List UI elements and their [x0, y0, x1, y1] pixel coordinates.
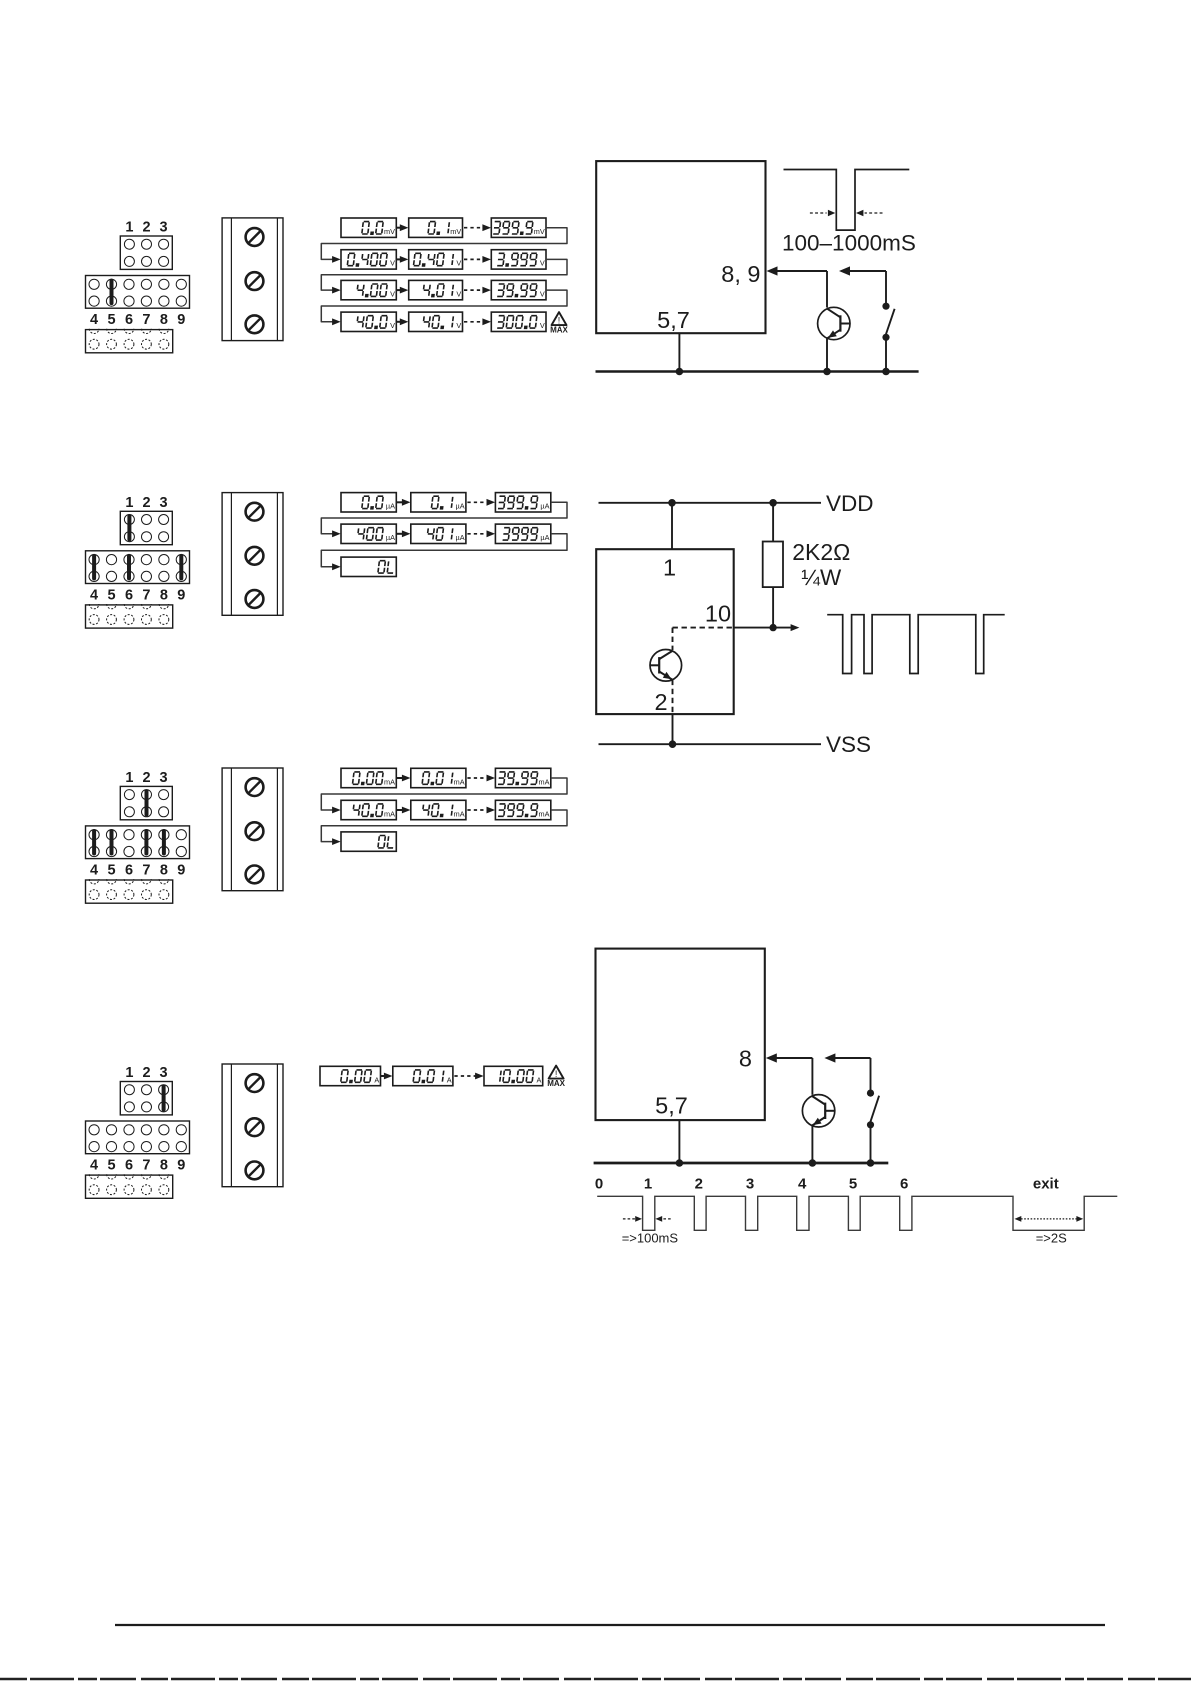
dashed measure arrow into first pulse left [623, 1216, 642, 1222]
jumper shunt on pin 9 (section 2) [179, 556, 183, 579]
pin labels 1 2 3 (section 2) [125, 495, 167, 511]
svg-text:5: 5 [107, 587, 115, 603]
svg-text:mA: mA [454, 777, 465, 786]
DUT box U2 (section 2) [596, 549, 734, 714]
svg-text:V: V [540, 259, 545, 268]
svg-text:mA: mA [454, 809, 465, 818]
wire: wrap connector to next range row (section 2) [321, 502, 567, 537]
wire: wrap connector to next range row (section 3) [321, 810, 567, 845]
svg-text:3: 3 [160, 770, 168, 786]
jumper shunt on pin 1 (section 2) [127, 516, 131, 539]
svg-text:MAX: MAX [547, 1079, 565, 1088]
svg-text:mA: mA [539, 809, 550, 818]
wire: switch top lead (section 4) [870, 1058, 872, 1093]
jumper header top block pins 1-3 (section 1) [120, 236, 172, 269]
wire: pin 2 to VSS [672, 714, 674, 744]
dashed measure arrow into first pulse right [655, 1216, 670, 1222]
ground rail (section 1) [596, 370, 919, 373]
svg-text:5: 5 [107, 862, 115, 878]
wire: wrap connector to next range row (section 2) [321, 534, 567, 570]
terminal block TB2 bottom screw [246, 590, 264, 608]
wire: resistor to output node [772, 587, 774, 628]
junction dot pin2/VSS [669, 740, 677, 748]
terminal block TB1 top screw [246, 228, 264, 246]
warning MAX symbol (section 1) [550, 312, 568, 334]
svg-text:V: V [390, 321, 395, 330]
svg-text:mV: mV [384, 227, 395, 236]
jumper header middle block pins 4-9 (section 4) [86, 1121, 190, 1154]
arrow step [397, 807, 411, 814]
wire: DUT pin 5,7 to ground (section 4) [678, 1120, 680, 1163]
junction dot pin 5,7 (section 4) [676, 1159, 684, 1167]
svg-text:2: 2 [142, 220, 150, 236]
ground rail (section 4) [594, 1162, 889, 1165]
wire: switch branch arrow (section 4) [824, 1053, 870, 1062]
output pulse waveform (section 2) [827, 615, 1005, 674]
svg-text:9: 9 [177, 1158, 185, 1174]
jumper header backside block (section 3) [86, 879, 173, 903]
svg-text:4: 4 [90, 1158, 98, 1174]
transistor Q2 (internal, mirrored) [650, 650, 682, 682]
svg-text:6: 6 [125, 862, 133, 878]
jumper shunt on pin 3 (section 4) [162, 1086, 166, 1109]
svg-text:9: 9 [177, 862, 185, 878]
display reading 39.99mA (section 3) [495, 768, 550, 787]
jumper shunt on pin 4 (section 2) [92, 556, 96, 579]
svg-text:1: 1 [125, 770, 133, 786]
svg-text:5,7: 5,7 [655, 1093, 688, 1119]
svg-text:exit: exit [1033, 1176, 1059, 1193]
pin labels 1 2 3 (section 3) [125, 770, 167, 786]
svg-text:mV: mV [450, 227, 461, 236]
svg-text:100–1000mS: 100–1000mS [782, 231, 916, 256]
display reading 0.00mA (section 3) [341, 768, 396, 787]
dashed arrow continues-to [454, 1073, 483, 1080]
DUT box U3 (section 4) [596, 949, 765, 1121]
dashed arrow continues-to [467, 499, 495, 506]
display reading 0.400V (section 1) [341, 250, 396, 269]
display reading 0.01A (section 4) [393, 1066, 453, 1085]
display reading 0.1µA (section 2) [411, 493, 466, 512]
svg-text:A: A [447, 1075, 452, 1084]
svg-text:4: 4 [90, 862, 98, 878]
dashed wire: internal collector to pin 10 [673, 627, 734, 629]
svg-text:VDD: VDD [826, 491, 874, 516]
terminal block TB3 middle screw [246, 822, 264, 840]
display reading 0.01mA (section 3) [411, 768, 466, 787]
svg-text:µA: µA [386, 502, 395, 511]
svg-text:0: 0 [595, 1176, 603, 1193]
display reading 0.1mV (section 1) [409, 218, 463, 237]
svg-text:2: 2 [142, 770, 150, 786]
svg-text:6: 6 [900, 1176, 908, 1193]
jumper header backside block (section 1) [86, 329, 173, 353]
display reading 39.99V (section 1) [491, 280, 546, 299]
svg-text:7: 7 [142, 312, 150, 328]
VDD rail [599, 502, 822, 504]
jumper shunt on pin 7 (section 3) [144, 831, 148, 854]
svg-text:8: 8 [739, 1046, 752, 1072]
pin labels 1 2 3 (section 4) [125, 1065, 167, 1081]
junction dot emitter [823, 368, 831, 376]
svg-text:3: 3 [160, 220, 168, 236]
svg-text:V: V [456, 321, 461, 330]
jumper header backside block (section 4) [86, 1174, 173, 1198]
terminal block TB2 body [222, 493, 283, 616]
wire: VDD to resistor [772, 503, 774, 542]
jumper shunt on pin 6 (section 2) [127, 556, 131, 579]
display reading 300.0V (section 1) [491, 312, 546, 331]
arrow step [397, 287, 409, 294]
wire: switch top lead [885, 271, 887, 306]
dashed arrow continues-to [467, 807, 495, 814]
jumper header backside block (section 2) [86, 604, 173, 628]
svg-text:5: 5 [107, 312, 115, 328]
wire: DUT pin 10 output to node and arrow out [734, 624, 800, 631]
svg-text:V: V [540, 289, 545, 298]
wire: switch bottom lead [885, 337, 887, 371]
timing waveform [597, 1196, 1117, 1230]
jumper shunt on pin 5 (section 1) [110, 281, 114, 304]
jumper header middle block pins 4-9 (section 1) [86, 276, 190, 309]
terminal block TB3 bottom screw [246, 866, 264, 884]
svg-text:4: 4 [90, 312, 98, 328]
svg-text:!: ! [558, 315, 561, 325]
svg-text:6: 6 [125, 312, 133, 328]
wire: input 8 from transistor collector node [766, 1053, 813, 1062]
dashed arrow continues-to [464, 287, 491, 294]
svg-text:2: 2 [142, 495, 150, 511]
display reading 399.9mA (section 3) [495, 800, 550, 819]
display reading 3999µA (section 2) [495, 524, 550, 543]
svg-text:µA: µA [456, 533, 465, 542]
terminal block TB1 body [222, 218, 283, 341]
svg-text:3: 3 [160, 1065, 168, 1081]
svg-text:6: 6 [125, 1158, 133, 1174]
display reading 400µA (section 2) [341, 524, 396, 543]
jumper shunt on pin 4 (section 3) [92, 831, 96, 854]
svg-text:5: 5 [849, 1176, 857, 1193]
wire: collector drop (section 4) [811, 1058, 813, 1095]
junction dot pin1/VDD [668, 499, 676, 507]
transistor Q1 [818, 307, 850, 339]
display reading 3.999V (section 1) [491, 250, 546, 269]
resistor R1 2K2 [763, 542, 783, 588]
arrow step [381, 1073, 393, 1080]
svg-text:V: V [456, 259, 461, 268]
svg-text:7: 7 [142, 1158, 150, 1174]
page bottom scan edge dashed line [0, 1678, 1191, 1681]
svg-text:V: V [540, 321, 545, 330]
wire: wrap connector to next range row (section 3) [321, 778, 567, 813]
display reading 0.0mV (section 1) [341, 218, 396, 237]
svg-text:mA: mA [539, 777, 550, 786]
svg-text:8, 9: 8, 9 [721, 261, 760, 287]
display reading 0.0µA (section 2) [341, 493, 396, 512]
display reading 0.00A (section 4) [320, 1066, 381, 1085]
transistor Q3 [802, 1095, 834, 1127]
svg-text:7: 7 [142, 862, 150, 878]
svg-text:1: 1 [125, 495, 133, 511]
terminal block TB1 middle screw [246, 272, 264, 290]
warning MAX symbol (section 4) [547, 1066, 565, 1088]
arrow step [397, 499, 411, 506]
svg-text:1: 1 [644, 1176, 652, 1193]
jumper header top block pins 1-3 (section 2) [120, 511, 172, 544]
svg-text:9: 9 [177, 312, 185, 328]
svg-text:8: 8 [160, 1158, 168, 1174]
svg-text:!: ! [555, 1069, 558, 1079]
svg-text:µA: µA [540, 533, 549, 542]
terminal block TB2 top screw [246, 503, 264, 521]
wire: input 8,9 from transistor collector node [767, 266, 828, 275]
jumper header middle block pins 4-9 (section 2) [86, 551, 190, 584]
wire: emitter to ground (section 4) [811, 1126, 813, 1163]
svg-text:V: V [456, 289, 461, 298]
svg-text:A: A [374, 1075, 379, 1084]
svg-text:2: 2 [142, 1065, 150, 1081]
terminal block TB3 top screw [246, 778, 264, 796]
display reading 401µA (section 2) [411, 524, 466, 543]
svg-text:5,7: 5,7 [657, 307, 690, 333]
pin labels 4 5 6 7 8 9 (section 3) [90, 862, 185, 878]
arrow step [397, 775, 411, 782]
wire: wrap connector to next range row (section 1) [321, 259, 567, 293]
terminal block TB2 middle screw [246, 547, 264, 565]
wire: wrap connector to next range row (section 1) [321, 290, 567, 325]
wire: switch bottom lead (section 4) [870, 1125, 872, 1163]
dashed arrow continues-to [464, 256, 491, 263]
svg-text:µA: µA [456, 502, 465, 511]
jumper header top block pins 1-3 (section 3) [120, 786, 172, 819]
terminal block TB4 body [222, 1064, 283, 1187]
display reading 0L (section 3) [341, 832, 396, 851]
svg-text:8: 8 [160, 587, 168, 603]
svg-text:5: 5 [107, 1158, 115, 1174]
svg-text:mA: mA [384, 777, 395, 786]
svg-text:µA: µA [540, 502, 549, 511]
svg-text:=>100mS: =>100mS [622, 1231, 679, 1246]
dashed measure arrow left [810, 210, 835, 216]
timing diagram step labels 0-6 and exit [595, 1176, 1059, 1193]
wire: switch branch arrow into node [839, 266, 886, 275]
display reading 399.9µA (section 2) [495, 493, 550, 512]
svg-text:4: 4 [798, 1176, 807, 1193]
pin labels 4 5 6 7 8 9 (section 2) [90, 587, 185, 603]
display reading 399.9mV (section 1) [491, 218, 546, 237]
jumper shunt on pin 8 (section 3) [162, 831, 166, 854]
svg-text:VSS: VSS [826, 732, 871, 757]
dashed arrow continues-to [467, 775, 495, 782]
dashed arrow continues-to [464, 318, 491, 325]
wire: DUT pin 5,7 to ground rail [678, 333, 680, 371]
svg-text:A: A [537, 1075, 542, 1084]
terminal block TB3 body [222, 768, 283, 891]
display reading 40.0mA (section 3) [341, 800, 396, 819]
DUT box U1 (section 1) [596, 161, 765, 333]
svg-text:6: 6 [125, 587, 133, 603]
display reading 0L (section 2) [341, 557, 396, 576]
arrow step [397, 256, 409, 263]
svg-text:¼W: ¼W [801, 565, 842, 590]
svg-text:7: 7 [142, 587, 150, 603]
junction dot resistor/VDD [769, 499, 777, 507]
svg-text:3: 3 [746, 1176, 754, 1193]
svg-text:8: 8 [160, 862, 168, 878]
svg-text:3: 3 [160, 495, 168, 511]
terminal block TB4 middle screw [246, 1118, 264, 1136]
display reading 40.0V (section 1) [341, 312, 396, 331]
display reading 40.1mA (section 3) [411, 800, 466, 819]
svg-text:9: 9 [177, 587, 185, 603]
junction dot output node [769, 624, 776, 631]
dashed arrow continues-to [467, 530, 495, 537]
svg-text:1: 1 [663, 555, 676, 581]
jumper header top block pins 1-3 (section 4) [120, 1082, 172, 1115]
dashed wire: collector vertical [672, 628, 674, 650]
junction dot switch (section 4) [867, 1159, 875, 1167]
display reading 40.1V (section 1) [409, 312, 463, 331]
junction dot pin 5,7 [676, 368, 684, 376]
display reading 4.00V (section 1) [341, 280, 396, 299]
svg-text:1: 1 [125, 220, 133, 236]
arrow step [397, 530, 411, 537]
svg-text:MAX: MAX [550, 326, 568, 335]
wire: wrap connector to next range row (section 1) [321, 228, 567, 263]
switch S1 [882, 303, 894, 341]
arrow step [397, 318, 409, 325]
pulse waveform 100-1000mS [784, 170, 910, 231]
switch S2 [867, 1090, 879, 1129]
pin labels 4 5 6 7 8 9 (section 1) [90, 312, 185, 328]
junction dot switch [882, 368, 890, 376]
wire: collector drop [826, 271, 828, 308]
dotted span arrow exit hold time [1015, 1216, 1084, 1222]
display reading 4.01V (section 1) [409, 280, 463, 299]
dashed arrow continues-to [464, 224, 491, 231]
jumper shunt on pin 2 (section 3) [145, 791, 149, 814]
wire: VDD to DUT pin 1 [671, 503, 673, 549]
pin labels 4 5 6 7 8 9 (section 4) [90, 1158, 185, 1174]
arrow step [397, 224, 409, 231]
terminal block TB1 bottom screw [246, 315, 264, 333]
svg-text:2: 2 [654, 689, 667, 715]
svg-text:mV: mV [534, 227, 545, 236]
wire: emitter to ground rail [826, 338, 828, 371]
junction dot emitter (section 4) [809, 1159, 817, 1167]
svg-text:8: 8 [160, 312, 168, 328]
terminal block TB4 top screw [246, 1074, 264, 1092]
jumper header middle block pins 4-9 (section 3) [86, 826, 190, 859]
footer rule [115, 1624, 1105, 1626]
svg-text:=>2S: =>2S [1036, 1231, 1067, 1246]
svg-text:2K2Ω: 2K2Ω [792, 539, 850, 565]
svg-text:V: V [390, 289, 395, 298]
terminal block TB4 bottom screw [246, 1162, 264, 1180]
dashed wire: emitter to DUT pin 2 [672, 680, 674, 714]
svg-text:1: 1 [125, 1065, 133, 1081]
dashed measure arrow right [856, 210, 883, 216]
jumper shunt on pin 5 (section 3) [110, 831, 114, 854]
display reading 10.00A (section 4) [484, 1066, 543, 1085]
svg-text:mA: mA [384, 809, 395, 818]
svg-text:4: 4 [90, 587, 98, 603]
pin labels 1 2 3 (section 1) [125, 220, 167, 236]
display reading 0.401V (section 1) [409, 250, 463, 269]
svg-text:V: V [390, 259, 395, 268]
svg-text:µA: µA [386, 533, 395, 542]
svg-text:10: 10 [705, 601, 731, 627]
VSS rail [599, 743, 822, 745]
svg-text:2: 2 [695, 1176, 703, 1193]
